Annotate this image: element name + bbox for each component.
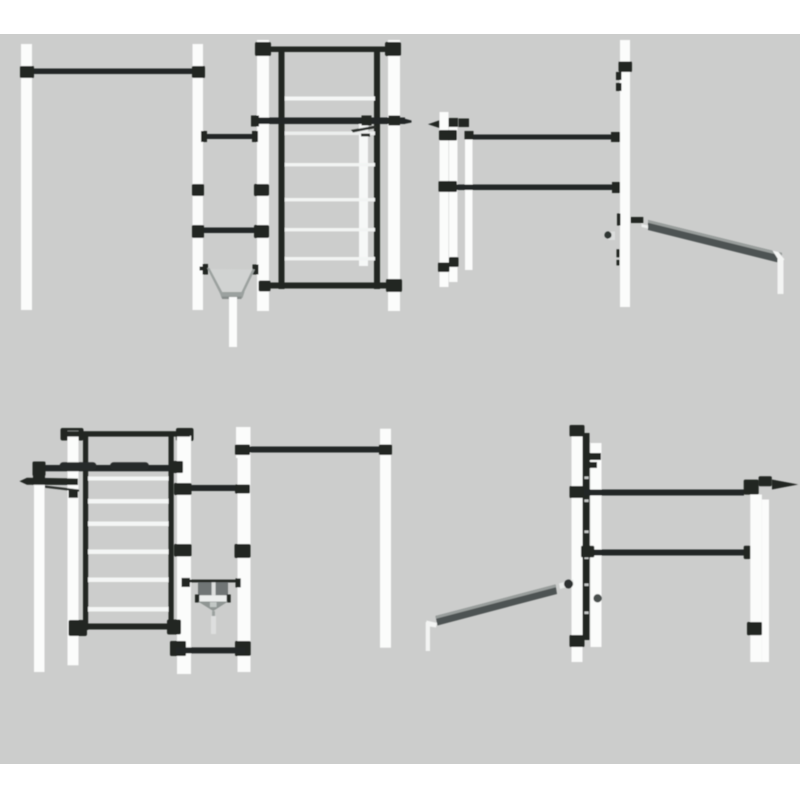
rung end dashes on strip xyxy=(585,477,589,615)
frame left vertical xyxy=(279,47,285,290)
frame bottom-right cube xyxy=(386,279,402,292)
hook c-piece xyxy=(631,217,644,223)
frame top-right cube xyxy=(385,42,401,56)
cube S1 top xyxy=(33,462,46,477)
sling bottom rim xyxy=(220,292,245,298)
post P4 xyxy=(388,40,400,311)
roller right cap xyxy=(227,595,231,603)
cube P7 at 485 xyxy=(235,485,250,494)
gray knob xyxy=(593,594,601,602)
cube at right vertical xyxy=(389,116,401,126)
mid black bar xyxy=(257,118,405,125)
cube at inner strip xyxy=(362,116,372,126)
high bar 2 xyxy=(248,447,381,453)
rung2 b xyxy=(88,499,169,504)
low bar right cap xyxy=(252,131,258,142)
rung (top) xyxy=(285,97,375,101)
post F xyxy=(449,127,458,282)
bar1 right cube b xyxy=(759,476,772,486)
post P7 narrow top xyxy=(236,427,244,458)
post P7 xyxy=(238,427,251,672)
white bracket at board xyxy=(559,580,574,590)
bench board support strip xyxy=(642,224,658,231)
rung 6 xyxy=(285,257,375,260)
rung2 e xyxy=(88,578,169,583)
bench leg bend xyxy=(773,251,785,263)
frame2 top-left cube xyxy=(61,428,84,441)
sling left stub xyxy=(200,267,204,271)
post H (tall right) xyxy=(620,40,630,307)
sling right cube xyxy=(253,265,259,275)
cube P2 mid xyxy=(192,184,204,196)
cube P6 bottom bar xyxy=(170,641,186,656)
rung2 a xyxy=(88,477,169,481)
bracket dash xyxy=(361,134,370,137)
seat back panel xyxy=(198,582,228,596)
black block xyxy=(69,490,79,498)
cube E/F at bar1 xyxy=(439,130,457,141)
bottom bar P6-P7 xyxy=(176,647,245,653)
cube P2 lower xyxy=(192,225,204,238)
black tabs on H xyxy=(617,249,620,257)
post P3 xyxy=(257,40,269,311)
frame2 bottom bar xyxy=(84,624,170,630)
post E xyxy=(440,112,449,287)
sling interior xyxy=(208,269,254,294)
cube on P3 at mid bar xyxy=(251,116,259,127)
ladder frame top bar xyxy=(257,47,401,53)
post P2 xyxy=(193,44,204,310)
cube on P6 at handles bar xyxy=(170,461,183,473)
sling bottom edge xyxy=(222,297,242,300)
white band top xyxy=(0,0,800,34)
cube E/F at bar2 xyxy=(439,181,458,192)
cube bar1 left xyxy=(570,486,587,498)
cube P7 high xyxy=(235,445,250,456)
connector cube on P2 xyxy=(192,66,205,78)
cube P3 mid xyxy=(254,184,269,196)
cube P8 high xyxy=(379,445,392,456)
bench leg 2 xyxy=(426,622,430,651)
bar2 right cube xyxy=(744,546,759,559)
post D xyxy=(762,500,769,663)
cube A top xyxy=(570,425,585,437)
frame right vertical xyxy=(374,47,380,290)
post P1 xyxy=(21,44,32,310)
rung 4 xyxy=(285,198,375,201)
frame edge strip xyxy=(583,433,590,640)
parallel bar 2 xyxy=(457,185,614,191)
seat bar right cube xyxy=(236,578,241,587)
low bar P2-P3 xyxy=(203,134,258,139)
cube S1 second xyxy=(33,474,45,484)
cube P7 big xyxy=(235,544,251,558)
handle grip 1 xyxy=(60,462,97,470)
seat triangle xyxy=(198,602,228,612)
post P5 xyxy=(68,431,79,666)
cube P6 at 483 xyxy=(174,483,192,495)
rung2 d xyxy=(88,550,169,555)
parallel bar 2 (bottom view) xyxy=(593,550,744,556)
frame2 bottom-right cube xyxy=(167,620,181,635)
post P6 xyxy=(177,436,191,674)
seat fading strip xyxy=(211,616,216,634)
bench leg stub xyxy=(427,621,438,628)
low bar left cap xyxy=(201,131,207,142)
bar P2-P3 lower xyxy=(197,228,259,234)
cube H top xyxy=(619,62,633,73)
roller left cap xyxy=(195,595,199,603)
bench leg xyxy=(778,259,784,294)
white bracket at H xyxy=(609,232,616,241)
sling band left xyxy=(207,268,223,294)
frame2 bottom-left cube xyxy=(69,620,88,636)
rung 2 xyxy=(285,132,375,136)
bench board highlight xyxy=(436,585,557,619)
post A xyxy=(572,425,583,662)
tab strip 1 xyxy=(588,453,601,460)
high pull-up bar xyxy=(27,69,199,75)
bar2 right cube xyxy=(612,182,624,193)
seat strut xyxy=(212,611,215,616)
cube C bottom xyxy=(747,622,762,635)
cube A bottom xyxy=(570,635,585,647)
cube P6 at 544 xyxy=(174,544,192,557)
seat small square xyxy=(210,602,217,607)
bar frame to P7 xyxy=(180,485,240,491)
parallel bar 1 xyxy=(473,135,612,140)
pointed bracket (tip right) xyxy=(772,480,798,490)
sling left cube xyxy=(203,264,209,275)
seat bar xyxy=(186,580,239,583)
rung2 f xyxy=(88,607,169,612)
right pointed bracket (tip left) xyxy=(428,120,441,129)
frame2 left vertical xyxy=(83,437,88,631)
post C xyxy=(750,495,762,663)
frame bottom-left cube xyxy=(259,281,271,292)
tab H 1 xyxy=(616,72,622,80)
bar1 right cube a xyxy=(744,480,759,495)
seat back white strip xyxy=(212,582,216,595)
bench board highlight xyxy=(648,220,782,256)
diagonal brace xyxy=(45,486,79,492)
post B xyxy=(591,443,602,647)
parallel bar 1 (bottom view) xyxy=(584,490,744,496)
connector cube on P1 xyxy=(20,66,34,78)
seat bar left cube xyxy=(182,578,191,587)
bracket under mid bar xyxy=(351,126,376,133)
tab strip 2 xyxy=(588,462,597,468)
knob dark at board xyxy=(564,580,573,589)
frame top-left cube xyxy=(255,42,271,56)
frame bottom bar xyxy=(260,283,400,289)
rung2 c xyxy=(88,522,169,527)
bracket cubes xyxy=(448,118,458,127)
mid bar pointed tip xyxy=(404,119,412,125)
rung 3 xyxy=(285,163,375,166)
cube E low xyxy=(438,263,450,273)
tab H 2 xyxy=(616,83,622,91)
white band bottom xyxy=(0,764,800,800)
hook tab on H xyxy=(617,214,621,226)
seat roller xyxy=(198,595,230,601)
handles bar xyxy=(35,465,177,471)
cube P7 bottom bar xyxy=(235,641,251,656)
handle grip 2 xyxy=(110,462,149,470)
frame2 top-right cube xyxy=(176,428,194,441)
sling band right xyxy=(241,269,255,294)
center strut below sling xyxy=(229,297,237,347)
bench board (bottom view) xyxy=(436,585,558,626)
bar1 right cube xyxy=(611,132,621,142)
frame2 top bar xyxy=(67,431,190,436)
cube F low xyxy=(449,257,459,267)
cube P3 lower xyxy=(254,225,269,238)
inner white strip xyxy=(359,124,368,266)
knob at H xyxy=(604,231,611,238)
pointed flat bracket (tip left) xyxy=(20,478,79,485)
rung 5 xyxy=(285,228,375,231)
post G xyxy=(465,135,473,270)
frame2 right vertical xyxy=(169,437,174,631)
bar2 left cube xyxy=(581,546,594,558)
cube G at bar1 xyxy=(465,131,474,140)
bench board (top view) xyxy=(648,220,782,263)
post S1 xyxy=(34,473,45,673)
post P8 xyxy=(380,429,391,648)
